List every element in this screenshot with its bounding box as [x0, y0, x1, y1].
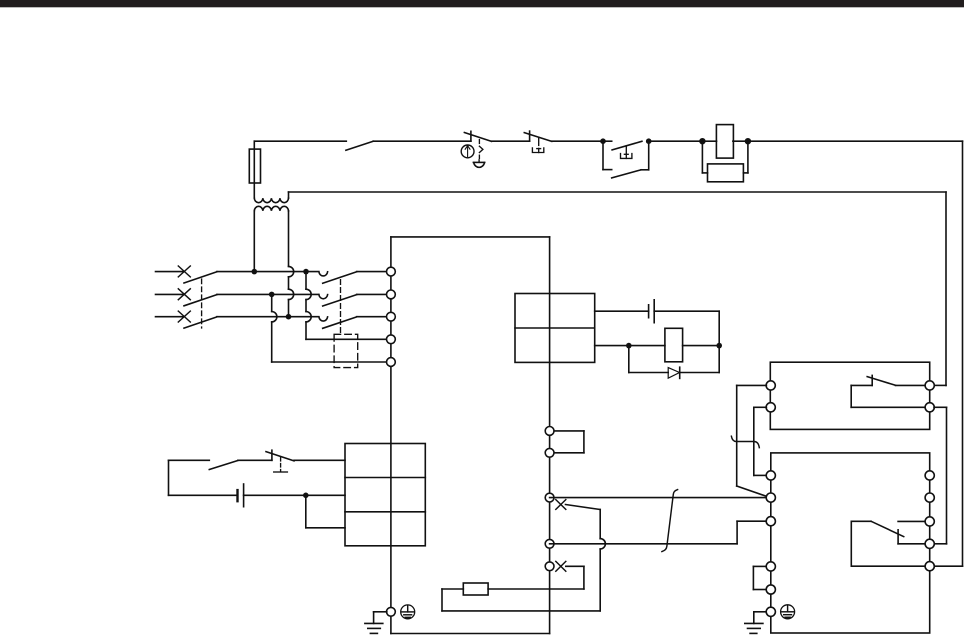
terminal U4-L5 [766, 585, 775, 594]
wire secondary right leg with hops [288, 211, 290, 267]
defrost timer box U2 [345, 444, 425, 546]
wire left loop [168, 460, 170, 495]
U3 internal NC switch wire [851, 384, 872, 386]
cut mark X1 [556, 500, 566, 510]
contactor linkage dashed [340, 280, 342, 335]
separation mark M1 [662, 490, 678, 552]
junction row3 [286, 314, 292, 320]
wire CN3-4 to block [550, 543, 738, 545]
U4 wire post to R4 [898, 543, 925, 545]
U4 changeover blade [871, 521, 904, 536]
resistor R3 defrost [463, 583, 488, 595]
wire S2 to S3 [492, 140, 530, 142]
fuse mark X on L2 [178, 289, 190, 300]
overload switch S4 left leg [602, 141, 604, 169]
diode D1 to node F [680, 372, 720, 374]
wire terminal column vertical [390, 237, 392, 634]
U3 wire lower [850, 385, 852, 407]
wire U1 to node E [595, 345, 629, 347]
wire right edge drop [962, 141, 964, 566]
transformer T1 secondary winding [254, 206, 288, 211]
disconnect linkage dashed [201, 279, 203, 328]
wire relay K1 to node F [683, 345, 720, 347]
thermostat S3 actuator link [538, 137, 540, 145]
overload S4 actuator link [625, 146, 627, 153]
control unit box U1 [515, 294, 595, 363]
wire capacitor to corner [654, 310, 719, 312]
U4 changeover wire R3 [898, 520, 925, 522]
bottom wire [391, 633, 550, 635]
terminal U4-R1 [925, 471, 934, 480]
overload switch S4 lower blade [612, 170, 641, 178]
protective earth symbol PE1 [401, 605, 415, 619]
terminal U4-L2 [766, 493, 775, 502]
earth ground G2 [745, 622, 763, 624]
node G junction [303, 493, 309, 499]
wire node B to node C [649, 140, 703, 142]
switch S6 manual actuator [280, 458, 282, 472]
node F junction [716, 343, 722, 349]
U4 wire pivot to R5 [851, 520, 871, 522]
wire contactor L3 to terminal [357, 316, 387, 318]
pressure switch S2 contact post [470, 131, 472, 141]
terminal U3-L2 [766, 403, 775, 412]
wire L2 to contactor [217, 293, 319, 295]
wire switch S5 input [169, 459, 210, 461]
terminal U4-R4 [925, 539, 934, 548]
switch S6 blade [266, 452, 294, 461]
terminal U3-R1 [925, 381, 934, 390]
wire L1 to contactor [217, 271, 319, 273]
wire X1 branch [566, 505, 601, 510]
terminal CN3-2 circle [545, 448, 554, 457]
wire secondary feed [289, 191, 947, 193]
junction row2 [269, 292, 275, 298]
terminal CN1-4 [387, 335, 396, 344]
wire contactor L1 to terminal [357, 271, 387, 273]
terminal U4-L4 [766, 562, 775, 571]
terminal U4-L3 [766, 517, 775, 526]
wire S6 to timer box [294, 459, 345, 461]
wire node E to relay K1 [629, 345, 665, 347]
phase input line L1 [156, 271, 185, 273]
wire battery input [169, 494, 238, 496]
U4 earth wire [754, 611, 767, 613]
pressure switch S2 blade [464, 133, 491, 142]
wire node G branch row3 [305, 495, 307, 528]
U4 jumper L4-L5 [753, 565, 766, 567]
thermostat switch S3 blade [524, 133, 551, 142]
switch S1 blade [346, 141, 373, 150]
fuse F1 [249, 149, 260, 183]
U3 NC contact post [871, 375, 873, 385]
wire contactor L2 to terminal [357, 293, 387, 295]
thermostat S3 thermal element [532, 148, 543, 153]
optional link dashed box [334, 334, 358, 367]
header bar [0, 0, 964, 8]
pressure switch S2 linkage dashes and chevron [478, 140, 480, 144]
disconnect switch blade L2 [184, 295, 217, 306]
PTC relay R1 [716, 125, 733, 159]
terminal CN3-4 circle [545, 539, 554, 548]
cut mark X2 [556, 561, 566, 571]
terminal U3-L1 [766, 381, 775, 390]
wire resistor to X2 [488, 588, 584, 590]
wire L3 to contactor [217, 316, 319, 318]
terminal E1 circle [387, 607, 396, 616]
capacitor C1 [648, 305, 650, 318]
terminal U3-R2 [925, 403, 934, 412]
wire secondary left leg [253, 211, 255, 272]
wire U1 to capacitor [595, 310, 649, 312]
node A junction [600, 138, 606, 144]
fuse mark X on L3 [178, 311, 190, 322]
fan unit box U3 [770, 362, 929, 429]
overload switch S4 upper blade [612, 141, 642, 150]
terminal CN1-3 [387, 312, 396, 321]
wire E1 to earth [374, 611, 387, 613]
switch S5 blade [209, 461, 238, 470]
diode D1 branch wire [628, 346, 630, 373]
wire node G to timer [306, 494, 345, 496]
terminal U4-L1 [766, 471, 775, 480]
transformer T1 primary winding [254, 198, 288, 203]
wire node D to right edge [748, 140, 963, 142]
contactor fixed contact L2 [319, 295, 328, 299]
overload S4 thermal element [621, 154, 632, 159]
contactor fixed contact L1 [319, 272, 328, 276]
contactor blade L1 [323, 272, 357, 283]
phase input line L3 [156, 316, 185, 318]
earth ground G1 [365, 622, 383, 624]
contactor blade L3 [323, 317, 357, 328]
wire U3-L1 to U4-L2 [737, 384, 767, 386]
battery B1 [236, 490, 238, 501]
node D junction [745, 138, 751, 144]
jumper loop CN3 1-2 [550, 430, 584, 432]
U3 wire blade to terminal [896, 384, 926, 386]
node E junction [626, 343, 632, 349]
separation mark M2 [731, 436, 759, 447]
wire right vertical to box CN2 [945, 192, 947, 385]
disconnect switch blade L1 [184, 272, 217, 283]
terminal U4-R2 [925, 493, 934, 502]
wire second column vertical [549, 237, 551, 634]
node C junction [699, 138, 705, 144]
wire row1 tap down with hops [305, 272, 307, 290]
wire S1 to S2 [373, 140, 471, 142]
disconnect switch blade L3 [184, 317, 217, 328]
overload switch S4 upper fixed stub [603, 140, 612, 142]
protective earth symbol PE2 [781, 605, 795, 619]
wire top L1 from fuse to switch S1 [254, 140, 346, 142]
diode D1 [668, 368, 679, 379]
wire U3-L2 to U4-L1 [754, 406, 767, 408]
compressor unit box U4 [771, 453, 930, 633]
resistor R2 parallel branch [701, 141, 703, 173]
wire CN3-3 to block [550, 497, 767, 499]
contactor blade L2 [323, 295, 357, 306]
terminal CN3-3 circle [545, 493, 554, 502]
terminal CN1-2 [387, 290, 396, 299]
junction row1 left [252, 269, 258, 275]
wire node C to PTC R1 [702, 140, 716, 142]
terminal CN1-1 [387, 267, 396, 276]
U4 changeover post [897, 530, 899, 544]
terminal CN3-5 circle [545, 562, 554, 571]
terminal CN1-5 [387, 358, 396, 367]
thermostat switch S3 contact post [529, 131, 531, 141]
relay coil K1 [665, 328, 683, 362]
wire S5 to S6 [238, 459, 272, 461]
junction row1 right [303, 269, 309, 275]
wire row2 tap down with hop [271, 294, 273, 311]
fuse mark X on L1 [178, 266, 190, 277]
pressure switch S2 diaphragm bowl [473, 161, 484, 163]
switch S6 post [271, 450, 273, 460]
node B junction [646, 138, 652, 144]
terminal U4-R3 [925, 517, 934, 526]
terminal CN3-1 circle [545, 427, 554, 436]
overload switch S4 right leg [648, 141, 650, 170]
contactor fixed contact L3 [319, 317, 328, 321]
wire R1 to node D [733, 140, 748, 142]
wire U3-R2 drop [934, 406, 947, 408]
phase input line L2 [156, 293, 185, 295]
U3 NC blade [867, 377, 895, 386]
pressure sensor P1 circle with up arrow [461, 145, 474, 158]
terminal U4-L6 [766, 607, 775, 616]
wire S3 to node A [552, 140, 603, 142]
wire column top link [391, 236, 550, 238]
terminal U4-R5 [925, 562, 934, 571]
wire battery to node G [244, 494, 306, 496]
